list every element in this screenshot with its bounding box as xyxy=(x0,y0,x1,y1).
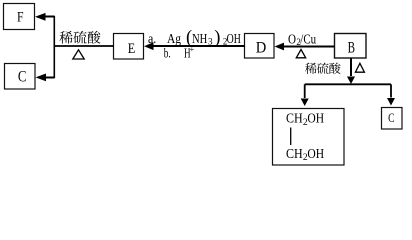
box E xyxy=(114,34,144,60)
wire+arrow down into big box xyxy=(304,84,306,98)
svg-text:B: B xyxy=(348,39,355,56)
delta under left line xyxy=(73,50,84,59)
svg-text:C: C xyxy=(18,69,27,86)
svg-text:b.: b. xyxy=(164,47,171,62)
wire: horizontal split xyxy=(305,83,391,85)
label xi liu suan (bottom) xyxy=(305,63,341,74)
svg-text:OH: OH xyxy=(307,111,324,126)
wire: B down + arrow xyxy=(350,58,352,76)
svg-text:3: 3 xyxy=(208,37,213,47)
svg-text:C: C xyxy=(388,111,394,125)
label xi liu suan (top left) xyxy=(59,31,100,44)
box F xyxy=(4,4,35,30)
svg-text:E: E xyxy=(128,41,136,57)
arrow B to D xyxy=(282,46,335,48)
bond line xyxy=(290,128,292,146)
svg-text:Ag: Ag xyxy=(167,32,181,47)
delta under O2/Cu xyxy=(296,50,305,58)
wire: left branch vertical xyxy=(53,16,55,78)
svg-text:CH: CH xyxy=(286,146,303,161)
svg-text:CH: CH xyxy=(286,111,303,126)
svg-text:D: D xyxy=(256,39,266,56)
svg-text:+: + xyxy=(190,44,195,54)
svg-text:a.: a. xyxy=(148,32,156,47)
wire+arrow into F xyxy=(45,16,54,18)
arrow D to E xyxy=(152,45,245,47)
wire: branch to E xyxy=(54,45,115,47)
box C left xyxy=(5,64,36,90)
svg-text:/Cu: /Cu xyxy=(300,32,316,47)
box C bottom-right xyxy=(382,108,403,130)
delta right of B down wire xyxy=(355,63,364,72)
box D xyxy=(245,34,275,59)
svg-text:OH: OH xyxy=(227,32,241,47)
svg-text:): ) xyxy=(214,28,220,48)
box B xyxy=(335,34,367,59)
big box ethylene glycol xyxy=(273,109,345,166)
wire+arrow down into C bottom-right xyxy=(390,84,392,97)
svg-text:F: F xyxy=(17,10,24,26)
wire+arrow into C left xyxy=(45,77,54,79)
svg-text:O: O xyxy=(288,32,296,47)
svg-text:OH: OH xyxy=(307,146,324,161)
